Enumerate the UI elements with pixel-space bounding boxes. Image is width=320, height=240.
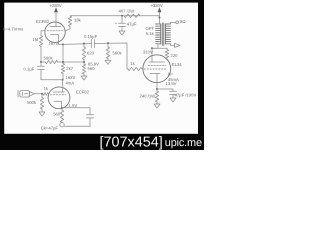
ground input (39, 112, 45, 116)
svg-text:310V: 310V (143, 50, 153, 55)
resistor 220 screen EL34 (152, 48, 178, 59)
ground cathode EL34 (154, 104, 160, 108)
svg-text:85.9V: 85.9V (88, 62, 99, 67)
svg-text:47µF: 47µF (127, 22, 137, 27)
wire primary bottom to plate (152, 44, 158, 62)
wire cathode to bypass cap (62, 108, 90, 115)
wire primary top (158, 23, 160, 25)
svg-text:1M: 1M (32, 37, 38, 42)
svg-text:Ck=47µF: Ck=47µF (41, 125, 59, 130)
wire plate V1 output 187V node (59, 43, 92, 46)
svg-text:e=4.7Vrms: e=4.7Vrms (3, 27, 23, 32)
tube V3 EL34 (143, 55, 182, 89)
svg-text:220: 220 (171, 53, 179, 58)
svg-text:163V: 163V (66, 75, 76, 80)
svg-text:13.5V: 13.5V (166, 81, 177, 86)
wire 187V node down (62, 44, 64, 63)
node input (41, 93, 43, 95)
capacitor Ck 47uF bypass (41, 115, 94, 131)
node +330 junction (159, 17, 161, 19)
resistor 620 divider upper (82, 44, 94, 63)
input jack (3, 27, 42, 97)
svg-text:5.1k: 5.1k (146, 31, 155, 36)
svg-text:ECF82: ECF82 (76, 90, 90, 95)
node plate EL34 (151, 47, 153, 49)
capacitor 47uF filter (115, 16, 137, 31)
ground terminal circle (60, 123, 64, 127)
node grid leak top (107, 42, 109, 44)
node cathode V2 (61, 107, 63, 109)
node +280V supply arrow (50, 3, 62, 22)
capacitor 47uF 100V bypass EL34 (170, 91, 197, 98)
wire B+ rail (70, 15, 160, 17)
resistor 560 cathode V2 (53, 108, 64, 123)
resistor 18k screen feed (65, 16, 82, 31)
svg-text:187V: 187V (49, 41, 59, 46)
wire coupling to EL34 grid (95, 43, 127, 69)
resistor 2k7 mu load (61, 64, 73, 80)
svg-text:560k: 560k (113, 51, 123, 56)
svg-text:+330V: +330V (151, 3, 163, 8)
node y62 cross (62, 61, 64, 63)
resistor 467 2W (119, 8, 141, 17)
capacitor 0.1uF mu (24, 62, 45, 80)
node divider tap (83, 61, 85, 63)
capacitor 0.15uF coupling (84, 34, 98, 48)
border frame (0, 0, 204, 3)
svg-text:467 /2W: 467 /2W (119, 8, 135, 13)
svg-text:2k7: 2k7 (66, 66, 73, 71)
wire cathode EL34 to cap (157, 89, 173, 91)
svg-text:+280V: +280V (50, 3, 62, 8)
tube V1 ECF82 upper triode (36, 19, 65, 44)
svg-text:240 /1W: 240 /1W (140, 93, 156, 98)
svg-text:upic.me: upic.me (165, 137, 202, 149)
resistor 560 divider lower (82, 62, 95, 76)
resistor 560k mu grid (44, 55, 58, 63)
resistor 560k grid leak EL34 (106, 43, 122, 60)
ground bypass EL34 (170, 98, 176, 102)
node rail junction (121, 15, 123, 17)
svg-text:ECF82: ECF82 (36, 19, 50, 24)
svg-text:0.1µF: 0.1µF (24, 67, 35, 72)
svg-text:560k: 560k (44, 55, 54, 60)
wire cathode network bottom (64, 125, 90, 127)
svg-text:47µF /100V: 47µF /100V (175, 92, 197, 97)
node divider top (83, 43, 85, 45)
wire mu cap to plate node (41, 79, 63, 81)
wire mu network y62 (41, 61, 84, 63)
resistor 1k grid stopper EL34 (127, 61, 143, 71)
svg-text:[707x454]: [707x454] (100, 135, 163, 151)
node V2 plate (62, 79, 64, 81)
wire secondary top terminal 8ohm (170, 22, 175, 24)
svg-text:18k: 18k (74, 18, 82, 23)
svg-text:EL34: EL34 (172, 62, 182, 67)
node cathode EL34 (156, 88, 158, 90)
resistor 1k grid stopper V2 (43, 86, 49, 95)
ground filter cap (119, 31, 125, 35)
svg-text:0.15µF: 0.15µF (84, 34, 98, 39)
svg-text:620: 620 (87, 51, 95, 56)
node mu cap top (40, 61, 42, 63)
node 187V (62, 43, 64, 45)
svg-text:560: 560 (88, 66, 96, 71)
wire secondary bottom terminal (170, 44, 174, 46)
resistor 240 1W cathode EL34 (140, 89, 159, 104)
svg-text:500k: 500k (27, 100, 37, 105)
svg-text:8Ω: 8Ω (180, 19, 185, 24)
resistor 500k input (27, 94, 44, 112)
ground grid leak (105, 60, 111, 64)
resistor 1M grid V1 (32, 31, 42, 62)
svg-text:560: 560 (53, 111, 61, 116)
ground divider (81, 76, 87, 80)
svg-text:4mA: 4mA (66, 81, 75, 86)
output transformer OPT (146, 23, 171, 46)
tube V2 ECF82 lower triode (48, 80, 90, 109)
node +330V supply arrow (151, 3, 163, 24)
